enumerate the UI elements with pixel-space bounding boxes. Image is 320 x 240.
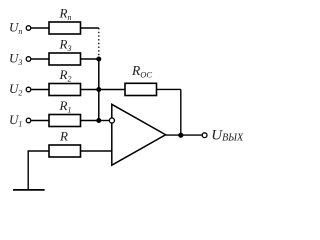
wire Un terminal to Rn <box>31 27 49 29</box>
resistor R3 <box>49 53 81 65</box>
wire U2 terminal to R2 <box>31 89 49 91</box>
output wire <box>166 134 203 136</box>
wire Roc to feedback corner <box>157 88 181 90</box>
resistor R <box>49 145 81 157</box>
resistor Rn <box>49 22 81 34</box>
op-amp <box>112 104 166 165</box>
feedback wire down to output <box>180 89 182 135</box>
resistor R2 <box>49 84 81 96</box>
input terminal Un <box>26 26 31 31</box>
wire Rn to bus <box>81 27 99 29</box>
wire Roc from summing bus <box>99 89 125 91</box>
resistor R1 <box>49 115 81 127</box>
junction node at R1/bus (summing node) <box>96 118 101 123</box>
dotted continuation wire <box>98 28 100 57</box>
inverting input bubble <box>109 118 114 123</box>
wire summing node to inverting input <box>99 120 110 122</box>
output terminal Uout <box>202 133 207 138</box>
resistor Roc <box>125 83 157 95</box>
ground <box>13 189 45 191</box>
junction node at output <box>178 133 183 138</box>
wire R3 to bus <box>81 58 99 60</box>
wire U1 terminal to R1 <box>31 120 49 122</box>
wire R to ground corner <box>28 151 49 190</box>
bus wire (summing node vertical) <box>98 59 100 121</box>
input terminal U1 <box>26 118 31 123</box>
wire U3 terminal to R3 <box>31 58 49 60</box>
junction node at R3/bus <box>96 57 101 62</box>
input terminal U2 <box>26 87 31 92</box>
junction node at R2/Roc/bus <box>96 87 101 92</box>
wire R1 to summing bus <box>81 120 99 122</box>
input terminal U3 <box>26 57 31 62</box>
wire R2 to bus <box>81 89 99 91</box>
svg-text:R: R <box>59 129 68 144</box>
wire R to non-inverting input <box>81 150 112 152</box>
